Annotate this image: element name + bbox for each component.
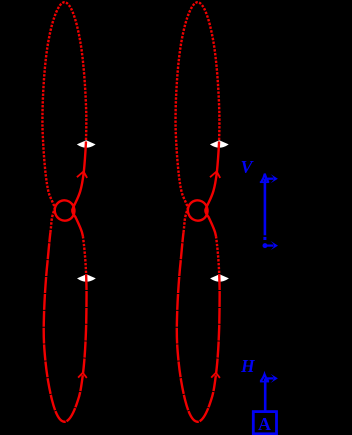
field-line loop column 1 (left) <box>42 2 86 422</box>
field-line loop column 2 (right) <box>176 2 220 422</box>
red tick arrow on lower lobe, column 1 <box>78 373 87 378</box>
svg-text:H: H <box>240 356 256 376</box>
ammeter A box <box>253 412 276 434</box>
svg-text:V: V <box>241 157 255 177</box>
red tick arrow on lower lobe, column 2 <box>211 373 220 378</box>
red tick arrow on upper lobe, column 1 <box>77 171 87 178</box>
vertical antenna V: top up-arrow <box>261 174 268 182</box>
vertical antenna V: wire element <box>264 179 267 236</box>
direction arrowhead (white cone) on upper lobe, column 1 <box>77 140 96 147</box>
wire: long-dash solid lower lobe <box>177 232 220 421</box>
vertical antenna V: lower barb dash <box>263 237 266 240</box>
direction arrowhead (white cone) on upper lobe, column 2 <box>210 140 229 147</box>
wire: solid right side of upper lobe descending into the waist <box>72 143 86 236</box>
vertical antenna V: bottom right-arrow <box>265 241 278 250</box>
wire: dotted right side of lower lobe down to white arrow <box>83 236 86 274</box>
small twist loop at the waist <box>52 198 77 223</box>
svg-text:A: A <box>258 414 271 434</box>
wire: dotted outline of upper lobe plus waist left strand <box>176 2 220 232</box>
wire: long-dash solid lower lobe (right side, bottom apex, left side) <box>44 232 87 421</box>
horizontal antenna H: up-arrow <box>261 374 269 381</box>
vertical antenna V: bottom feed dot <box>263 243 268 248</box>
wire: solid right side of upper lobe descending into the waist <box>205 143 219 236</box>
horizontal antenna H: right-arrow <box>265 374 278 383</box>
red tick arrow on upper lobe, column 2 <box>210 171 220 178</box>
wire: lead from H antenna down to ammeter <box>264 379 267 411</box>
wire: dotted right side of lower lobe down to white arrow <box>216 236 219 274</box>
direction arrowhead (white cone) on lower lobe, column 2 <box>210 274 229 281</box>
direction arrowhead (white cone) on lower lobe, column 1 <box>77 274 96 281</box>
wire: dotted outline of upper lobe (left side, apex, right side) plus waist left strand <box>42 2 86 232</box>
small twist loop at the waist <box>185 198 210 223</box>
vertical antenna V: top right-arrow <box>265 174 278 183</box>
